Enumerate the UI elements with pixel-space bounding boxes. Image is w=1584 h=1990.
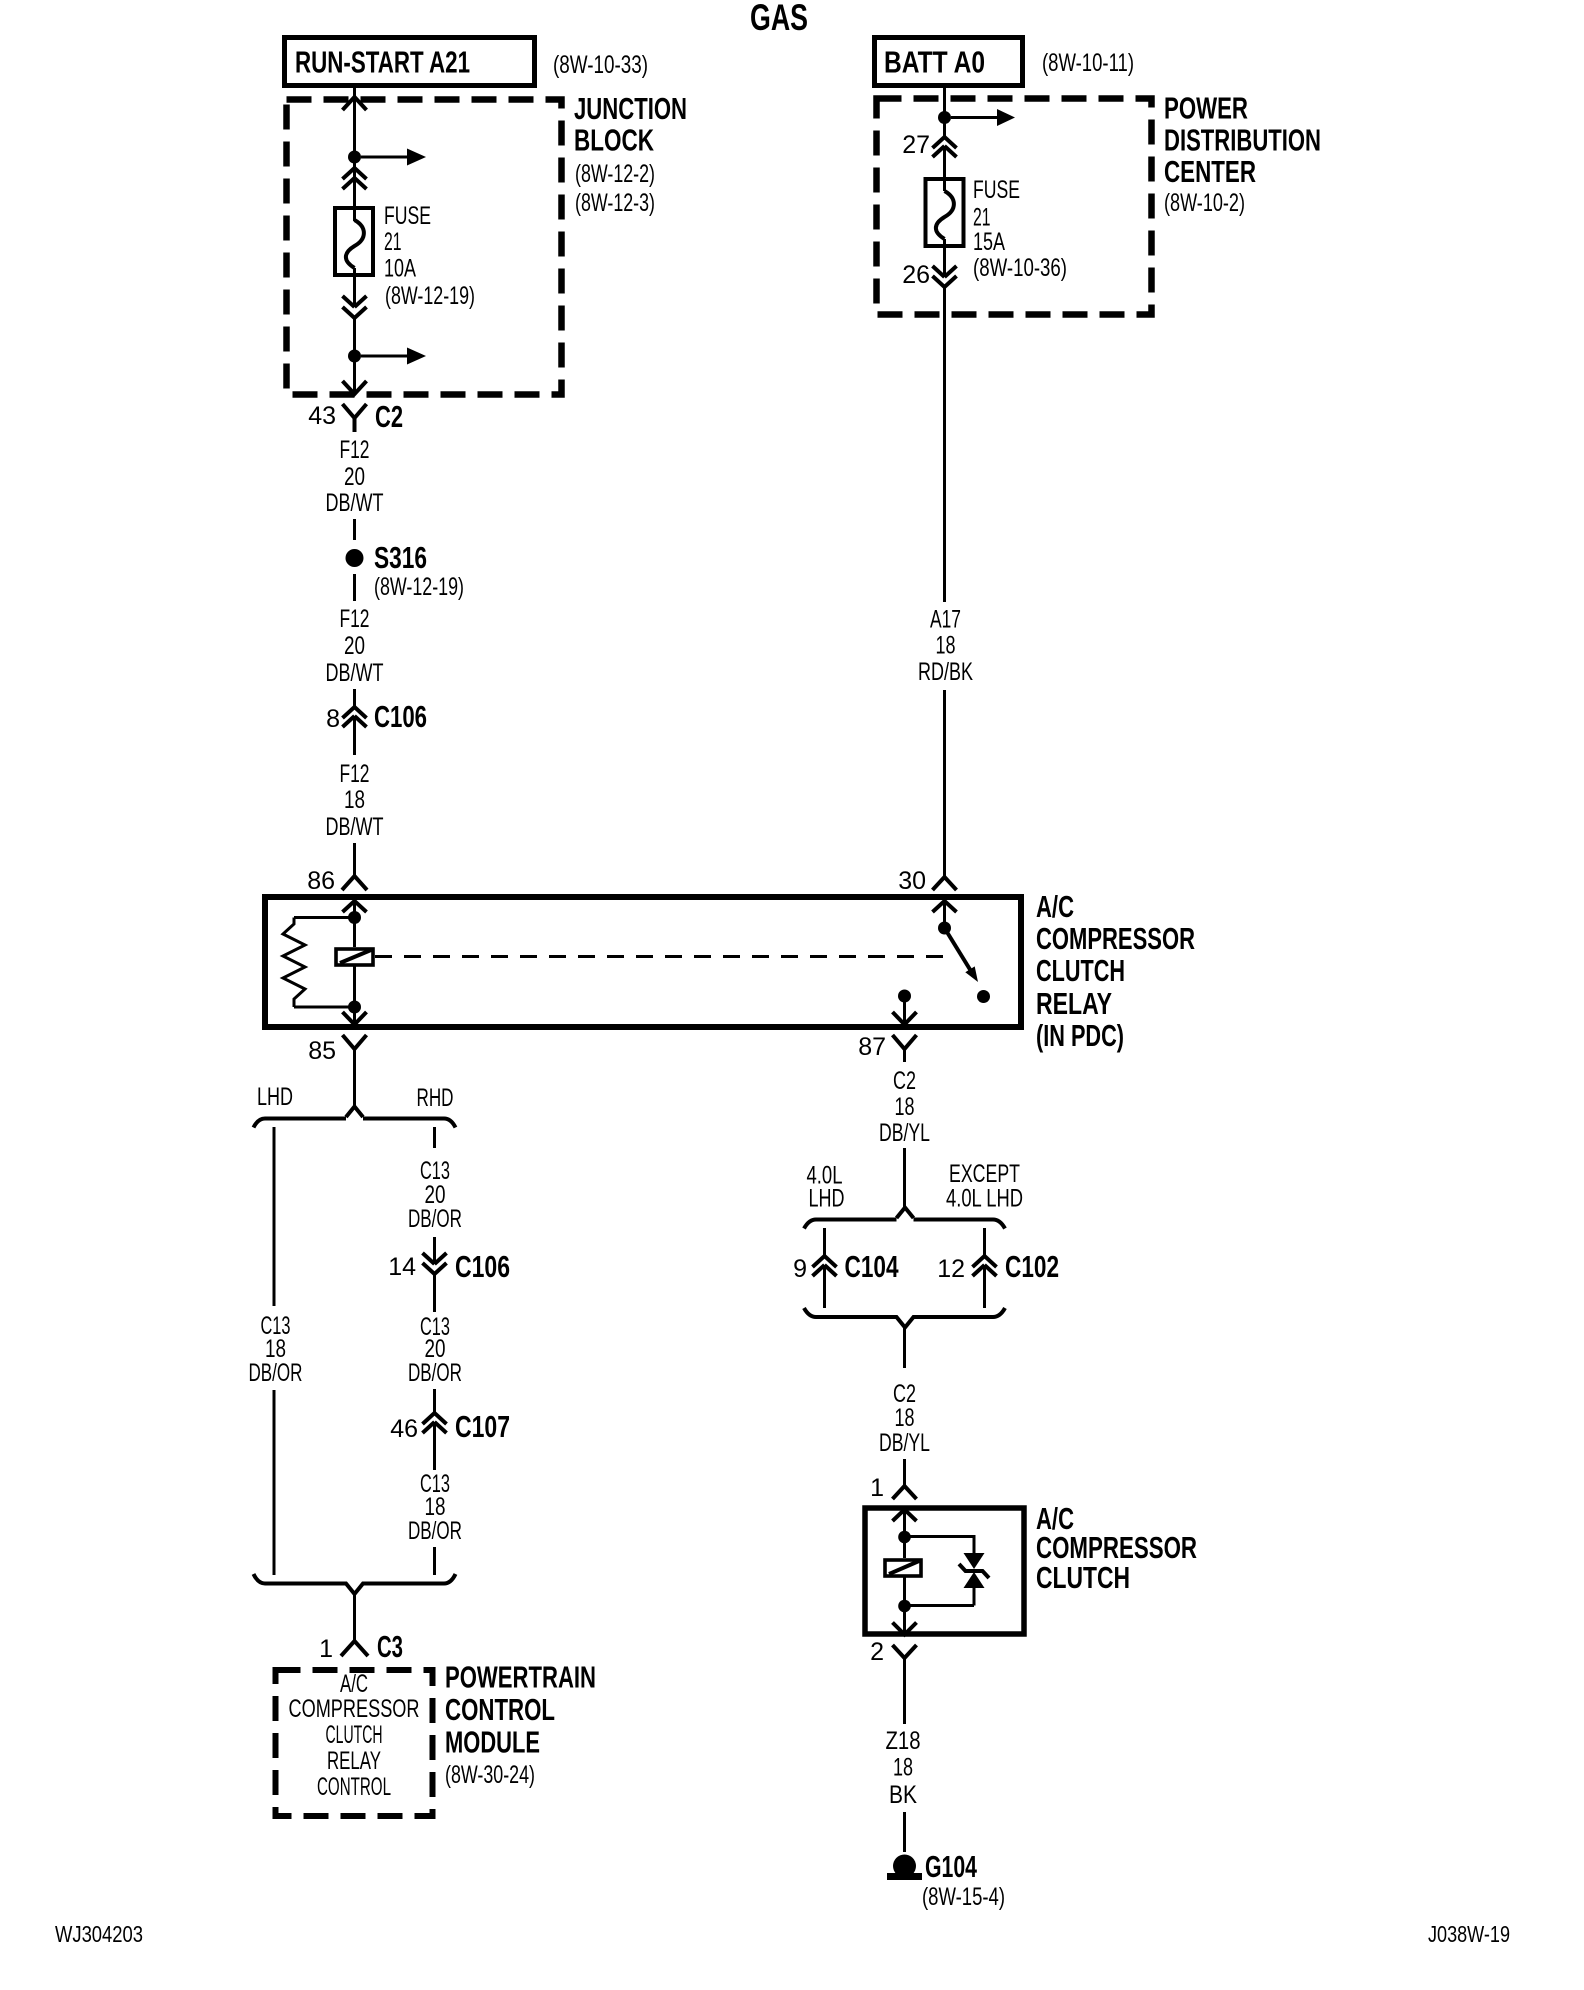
arrow up inside relay pin 86 bbox=[343, 901, 367, 912]
arrow down at junction block bottom bbox=[343, 381, 367, 394]
svg-text:CONTROL: CONTROL bbox=[445, 1692, 555, 1727]
connector C102 pin 12 (in-line chevrons up) bbox=[937, 1249, 1059, 1284]
svg-text:(8W-12-2): (8W-12-2) bbox=[575, 160, 655, 188]
arrow down inside relay pin 85 bbox=[343, 1012, 367, 1025]
svg-text:RD/BK: RD/BK bbox=[918, 658, 973, 686]
PCM dashed box bbox=[276, 1670, 433, 1816]
split brace 4.0L / EXCEPT bbox=[804, 1208, 1005, 1229]
svg-text:FUSE: FUSE bbox=[384, 202, 431, 230]
wire segment above C106 pin 14 bbox=[433, 1237, 436, 1264]
RHD branch wire upper bbox=[433, 1127, 436, 1148]
wire segment above splice bbox=[353, 519, 356, 540]
svg-text:C106: C106 bbox=[455, 1249, 510, 1284]
svg-text:RHD: RHD bbox=[417, 1084, 454, 1112]
svg-text:(8W-10-11): (8W-10-11) bbox=[1042, 49, 1134, 77]
branch arrow right (to other circuits) bbox=[361, 348, 426, 365]
EXCEPT branch wire lower bbox=[983, 1265, 986, 1308]
split brace LHD/RHD bbox=[254, 1107, 456, 1128]
svg-text:21: 21 bbox=[384, 228, 402, 256]
connector C107 pin 46 (in-line chevrons up) bbox=[390, 1409, 510, 1444]
svg-text:20: 20 bbox=[344, 632, 365, 660]
suppression zener diode (bidirectional) bbox=[959, 1553, 989, 1606]
wire label C2 18 DB/YL (upper) bbox=[879, 1067, 930, 1147]
wire segment below C106 pin 14 bbox=[433, 1274, 436, 1312]
svg-text:C102: C102 bbox=[1005, 1249, 1059, 1284]
svg-text:A/C: A/C bbox=[340, 1670, 368, 1698]
relay label A/C COMPRESSOR CLUTCH RELAY (IN PDC) bbox=[1036, 889, 1195, 1053]
wire segment above C106 bbox=[353, 689, 356, 707]
svg-text:87: 87 bbox=[858, 1033, 886, 1061]
svg-text:18: 18 bbox=[895, 1093, 915, 1121]
svg-text:1: 1 bbox=[870, 1474, 884, 1502]
svg-text:8: 8 bbox=[326, 705, 340, 733]
svg-text:4.0L LHD: 4.0L LHD bbox=[946, 1185, 1023, 1213]
svg-text:DB/YL: DB/YL bbox=[879, 1429, 930, 1457]
wire segment below C107 bbox=[433, 1422, 436, 1470]
svg-text:A/C: A/C bbox=[1036, 889, 1074, 924]
svg-text:WJ304203: WJ304203 bbox=[55, 1921, 143, 1947]
wire to clutch pin 1 bbox=[903, 1459, 906, 1486]
svg-text:BK: BK bbox=[889, 1781, 917, 1809]
branch arrow right (to other circuits) bbox=[951, 109, 1015, 126]
clutch pin 2 connector fork bbox=[870, 1638, 916, 1666]
svg-text:F12: F12 bbox=[340, 436, 370, 464]
wire label F12 20 DB/WT bbox=[326, 605, 384, 687]
svg-text:G104: G104 bbox=[925, 1849, 978, 1884]
merge brace 4.0L / EXCEPT bbox=[804, 1308, 1005, 1328]
svg-text:FUSE: FUSE bbox=[973, 176, 1020, 204]
svg-text:F12: F12 bbox=[340, 605, 370, 633]
wire label F12 18 DB/WT bbox=[326, 760, 384, 841]
svg-text:DB/OR: DB/OR bbox=[408, 1517, 462, 1545]
wire fuse to lower chevrons bbox=[353, 268, 356, 307]
LHD branch wire upper bbox=[273, 1127, 276, 1306]
svg-text:2: 2 bbox=[870, 1638, 884, 1666]
in-line connector chevrons (bus, down) bbox=[343, 296, 367, 318]
node: switch throw contact bbox=[977, 990, 990, 1003]
svg-text:26: 26 bbox=[902, 261, 930, 289]
svg-text:18: 18 bbox=[936, 632, 956, 660]
in-line connector chevrons (bus, up) bbox=[343, 168, 367, 189]
wire coil to pin 85 bbox=[353, 965, 356, 1024]
svg-text:DB/OR: DB/OR bbox=[249, 1359, 303, 1387]
PDC label bbox=[1164, 91, 1321, 218]
clutch pin 1 connector fork bbox=[870, 1474, 916, 1502]
LHD branch wire lower bbox=[273, 1390, 276, 1575]
arrow up at junction block top bbox=[343, 97, 367, 110]
svg-text:JUNCTION: JUNCTION bbox=[574, 91, 687, 126]
power feed box BATT A0 bbox=[875, 38, 1023, 86]
node: coil top junction bbox=[348, 911, 361, 924]
dashed mechanical link coil to switch bbox=[375, 955, 955, 958]
svg-text:(8W-12-19): (8W-12-19) bbox=[385, 282, 475, 310]
svg-text:C106: C106 bbox=[374, 699, 427, 734]
node: clutch bottom junction bbox=[898, 1600, 911, 1613]
svg-text:C2: C2 bbox=[893, 1067, 916, 1095]
svg-text:(8W-12-19): (8W-12-19) bbox=[374, 573, 464, 601]
node: switch common bbox=[938, 922, 951, 935]
wire label C2 18 DB/YL (lower) bbox=[879, 1380, 930, 1457]
power feed box RUN-START A21 bbox=[285, 38, 535, 86]
svg-text:12: 12 bbox=[937, 1255, 965, 1283]
svg-text:COMPRESSOR: COMPRESSOR bbox=[289, 1695, 420, 1723]
wire coil to pin 2 bbox=[903, 1576, 906, 1634]
svg-text:RUN-START A21: RUN-START A21 bbox=[295, 45, 470, 80]
wire merge to PCM pin 1 bbox=[353, 1594, 356, 1641]
svg-text:(8W-10-33): (8W-10-33) bbox=[553, 51, 648, 79]
pin 85 connector fork bbox=[308, 1035, 366, 1065]
fuse 21 10A (junction block) bbox=[335, 208, 373, 275]
wire PDC down to label A17 bbox=[943, 287, 946, 602]
svg-text:POWER: POWER bbox=[1164, 91, 1248, 126]
wire to switch common bbox=[943, 901, 946, 928]
svg-text:DISTRIBUTION: DISTRIBUTION bbox=[1164, 123, 1321, 158]
svg-text:Z18: Z18 bbox=[886, 1727, 921, 1755]
arrow down inside relay pin 87 bbox=[893, 1012, 917, 1025]
svg-text:10A: 10A bbox=[384, 255, 416, 283]
splice S316 bbox=[346, 540, 465, 601]
resistor (relay shunt) bbox=[283, 918, 355, 1008]
connector C3 pin 1 fork bbox=[319, 1629, 403, 1664]
svg-text:CONTROL: CONTROL bbox=[317, 1773, 391, 1801]
wire RUN-START A21 feed into junction block bbox=[353, 88, 356, 221]
svg-text:(8W-12-3): (8W-12-3) bbox=[575, 189, 655, 217]
wire pin 2 down bbox=[903, 1658, 906, 1724]
A/C compressor clutch relay box bbox=[265, 897, 1021, 1027]
EXCEPT branch wire upper bbox=[983, 1228, 986, 1256]
svg-text:J038W-19: J038W-19 bbox=[1428, 1921, 1510, 1947]
wire pin 85 down to LHD/RHD split bbox=[353, 1049, 356, 1107]
svg-text:C104: C104 bbox=[845, 1249, 900, 1284]
wire label C13 18 DB/OR (RHD low) bbox=[408, 1470, 462, 1545]
connector C106 pin 8 (in-line chevrons up) bbox=[326, 699, 427, 734]
relay switch arm bbox=[945, 928, 979, 982]
svg-text:POWERTRAIN: POWERTRAIN bbox=[445, 1660, 596, 1695]
svg-text:9: 9 bbox=[793, 1255, 807, 1283]
node: junction dot lower (bus tap) bbox=[348, 350, 361, 363]
wire label to relay pin 30 bbox=[943, 690, 946, 877]
RHD branch wire bottom bbox=[433, 1547, 436, 1575]
suppression diode branch (bottom link) bbox=[905, 1604, 975, 1607]
connector C106 pin 14 (in-line chevrons down) bbox=[388, 1249, 510, 1284]
svg-text:86: 86 bbox=[307, 867, 335, 895]
pin 87 connector fork bbox=[858, 1033, 916, 1061]
svg-text:20: 20 bbox=[344, 463, 365, 491]
wire label F12 20 DB/WT bbox=[326, 436, 384, 517]
merge brace LHD/RHD bbox=[254, 1574, 456, 1594]
svg-text:BATT A0: BATT A0 bbox=[884, 45, 985, 80]
svg-text:(8W-10-36): (8W-10-36) bbox=[973, 254, 1067, 282]
wire label C13 20 DB/OR (RHD mid) bbox=[408, 1313, 462, 1387]
svg-text:A17: A17 bbox=[930, 606, 961, 634]
arrow up inside clutch pin 1 bbox=[893, 1510, 917, 1522]
arrow up inside relay pin 30 bbox=[933, 901, 957, 912]
fuse label FUSE 21 15A (8W-10-36) bbox=[973, 176, 1067, 282]
svg-text:S316: S316 bbox=[374, 540, 427, 575]
svg-text:CLUTCH: CLUTCH bbox=[326, 1721, 383, 1749]
clutch coil feed wire bbox=[903, 1510, 906, 1559]
wire label Z18 18 BK bbox=[886, 1727, 921, 1809]
connector C104 pin 9 (in-line chevrons up) bbox=[793, 1249, 899, 1284]
svg-text:1: 1 bbox=[319, 1635, 333, 1663]
svg-text:GAS: GAS bbox=[750, 0, 808, 38]
wire BATT A0 into PDC bbox=[943, 88, 946, 137]
node: junction dot upper (bus tap) bbox=[348, 151, 361, 164]
svg-text:C107: C107 bbox=[455, 1409, 510, 1444]
wire label C13 20 DB/OR (RHD) bbox=[408, 1157, 462, 1233]
fuse label FUSE 21 10A (8W-12-19) bbox=[384, 202, 475, 310]
svg-text:LHD: LHD bbox=[257, 1083, 293, 1111]
svg-text:BLOCK: BLOCK bbox=[574, 123, 654, 158]
clutch label A/C COMPRESSOR CLUTCH bbox=[1036, 1501, 1197, 1595]
svg-text:15A: 15A bbox=[973, 228, 1005, 256]
relay coil feed wire bbox=[353, 901, 356, 947]
wire segment below splice bbox=[353, 574, 356, 601]
wire merge down bbox=[903, 1328, 906, 1369]
svg-text:18: 18 bbox=[895, 1404, 915, 1432]
svg-text:(IN PDC): (IN PDC) bbox=[1036, 1018, 1124, 1053]
clutch coil bbox=[885, 1560, 921, 1576]
svg-text:MODULE: MODULE bbox=[445, 1725, 540, 1760]
wire to 4.0L split bbox=[903, 1148, 906, 1208]
svg-text:(8W-10-2): (8W-10-2) bbox=[1164, 189, 1245, 217]
power distribution center dashed box bbox=[877, 99, 1152, 315]
svg-text:CLUTCH: CLUTCH bbox=[1036, 953, 1125, 988]
in-line connector chevrons pin 27 (up) bbox=[902, 131, 956, 159]
node: pin 87 contact bbox=[898, 990, 911, 1003]
wire fuse to lower chevrons bbox=[943, 239, 946, 277]
svg-text:(8W-30-24): (8W-30-24) bbox=[445, 1761, 535, 1789]
svg-text:14: 14 bbox=[388, 1253, 416, 1281]
svg-text:DB/WT: DB/WT bbox=[326, 813, 384, 841]
EXCEPT 4.0L LHD branch label bbox=[946, 1160, 1023, 1213]
wire label C13 18 DB/OR (LHD) bbox=[249, 1312, 303, 1387]
svg-text:RELAY: RELAY bbox=[1036, 986, 1112, 1021]
svg-text:DB/WT: DB/WT bbox=[326, 659, 384, 687]
svg-text:DB/OR: DB/OR bbox=[408, 1359, 462, 1387]
pin 30 connector fork bbox=[933, 877, 957, 890]
wire segment below C106 bbox=[353, 716, 356, 755]
PCM label POWERTRAIN CONTROL MODULE bbox=[445, 1660, 596, 1790]
PCM pin function label bbox=[289, 1670, 420, 1801]
svg-text:18: 18 bbox=[893, 1754, 913, 1782]
wire chevrons to fuse bbox=[943, 146, 946, 191]
relay coil bbox=[336, 949, 373, 965]
arrow down inside clutch pin 2 bbox=[893, 1623, 917, 1635]
4.0L LHD branch wire lower bbox=[823, 1265, 826, 1308]
wire contact to pin 87 bbox=[903, 996, 906, 1024]
pin 86 connector fork bbox=[307, 867, 367, 895]
svg-text:CENTER: CENTER bbox=[1164, 154, 1256, 189]
svg-text:CLUTCH: CLUTCH bbox=[1036, 1560, 1130, 1595]
node: coil bottom junction bbox=[348, 1001, 361, 1014]
wire chevrons to box bottom bbox=[353, 318, 356, 394]
branch arrow right (to other circuits) bbox=[361, 149, 426, 166]
wire label A17 18 RD/BK bbox=[918, 606, 973, 687]
suppression diode branch (top link) bbox=[905, 1537, 975, 1554]
wire into relay pin 86 bbox=[353, 843, 356, 876]
svg-text:27: 27 bbox=[902, 131, 930, 159]
4.0L LHD branch wire upper bbox=[823, 1228, 826, 1256]
svg-text:COMPRESSOR: COMPRESSOR bbox=[1036, 921, 1195, 956]
svg-text:43: 43 bbox=[308, 402, 336, 430]
junction block dashed box bbox=[287, 100, 562, 395]
in-line connector chevrons pin 26 (down) bbox=[902, 261, 956, 289]
ground G104 bbox=[887, 1849, 1005, 1911]
svg-text:30: 30 bbox=[898, 867, 926, 895]
svg-text:LHD: LHD bbox=[809, 1185, 845, 1213]
svg-text:RELAY: RELAY bbox=[327, 1747, 381, 1775]
wire to ground bbox=[903, 1812, 906, 1852]
fuse 21 15A (PDC) bbox=[926, 179, 964, 246]
svg-text:C2: C2 bbox=[375, 399, 403, 434]
svg-text:85: 85 bbox=[308, 1037, 336, 1065]
wire segment above C107 bbox=[433, 1389, 436, 1413]
svg-text:18: 18 bbox=[344, 786, 365, 814]
connector C2 pin 43 bbox=[308, 399, 403, 434]
svg-text:46: 46 bbox=[390, 1415, 418, 1443]
node: battery bus junction bbox=[938, 111, 951, 124]
wire relay pin 87 down bbox=[903, 1049, 906, 1062]
node: clutch top junction bbox=[898, 1531, 911, 1544]
junction block label bbox=[574, 91, 687, 217]
4.0L LHD branch label bbox=[807, 1162, 845, 1213]
svg-text:F12: F12 bbox=[340, 760, 370, 788]
svg-text:(8W-15-4): (8W-15-4) bbox=[922, 1883, 1005, 1911]
svg-text:DB/YL: DB/YL bbox=[879, 1119, 930, 1147]
svg-text:C3: C3 bbox=[377, 1629, 403, 1664]
svg-text:DB/WT: DB/WT bbox=[326, 489, 384, 517]
svg-text:DB/OR: DB/OR bbox=[408, 1205, 462, 1233]
A/C compressor clutch box bbox=[865, 1508, 1024, 1634]
